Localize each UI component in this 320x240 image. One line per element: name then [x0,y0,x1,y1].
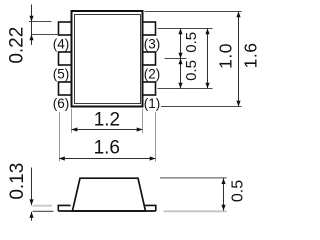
dimension 0.13: lines and arrows [31,168,33,206]
svg-text:(1): (1) [144,96,161,111]
pin 5 pad [59,52,72,65]
svg-text:(4): (4) [53,37,70,52]
side view: bottom edge / seating [58,210,156,212]
pin 3 pad [143,22,156,35]
dimension 0.5 pitch line [180,29,182,89]
pin 6 pad [59,82,72,95]
svg-text:0.5: 0.5 [183,32,200,53]
svg-text:1.6: 1.6 [94,138,120,159]
pin pitch extension lines (right) [158,28,213,30]
svg-text:(5): (5) [53,67,70,82]
svg-text:0.5: 0.5 [229,180,246,202]
svg-text:1.2: 1.2 [94,109,120,130]
pin 4 pad [59,22,72,35]
side view: package body trapezoid [72,178,145,211]
svg-text:1.0: 1.0 [215,43,235,69]
dimension 0.22: dimension line with outside arrows [31,5,33,46]
side view: right lead [145,205,156,211]
svg-text:1.6: 1.6 [240,43,260,69]
pin 2 pad [143,52,156,65]
side view: seating plane left (lead top ref) [33,205,53,207]
package body inner edge line [75,15,141,104]
svg-text:0.22: 0.22 [7,27,28,64]
dimension 1.6 bottom: dimension line [59,158,156,160]
svg-text:(2): (2) [144,67,161,82]
dimension 1.6 right: dimension line [238,12,240,107]
svg-text:0.5: 0.5 [183,60,200,81]
dimension 1.2: dimension line [72,129,143,131]
side view: left lead [58,205,70,211]
svg-text:0.13: 0.13 [7,163,28,200]
package body outline (top view) [72,11,143,107]
dimension 0.5 side: top extension line [160,177,227,179]
dimension 1.6 bottom: extension lines [59,112,61,162]
dimension 1.6 right: extension lines [145,11,242,13]
side view: lead bottom ref line left [33,210,54,212]
pin 1 pad [143,82,156,95]
dimension 0.5 side: dimension line [223,178,225,210]
svg-text:(3): (3) [144,37,161,52]
svg-text:(6): (6) [53,96,70,111]
dimension 1.2: extension lines [71,109,73,134]
dimension 1.0 line [207,29,209,89]
dimension 0.5 side: seating plane gray line [164,210,227,212]
dimension 0.22: extension lines [29,21,52,23]
